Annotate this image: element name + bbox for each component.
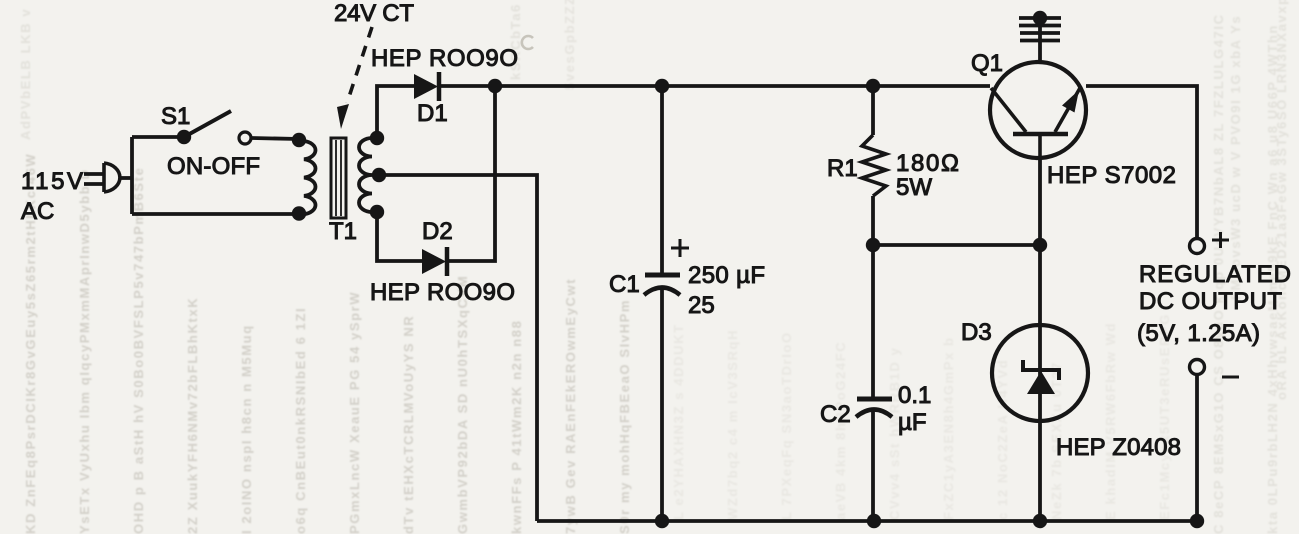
svg-text:ON-OFF: ON-OFF [167,153,260,180]
svg-text:0.1: 0.1 [898,382,931,409]
wire D2 to top bus junction [446,86,495,261]
heatsink dot [1033,11,1047,25]
svg-text:I 2oINO nspI h8cn n M5Muq: I 2oINO nspI h8cn n M5Muq [239,324,254,534]
transformer T1 secondary winding [359,138,372,212]
svg-text:C2: C2 [820,401,851,428]
svg-text:GwmbVP92bDA SD nU0hTSXqCVM: GwmbVP92bDA SD nU0hTSXqCVM [455,275,470,534]
junction dot R1 top [866,79,880,93]
svg-text:c 12 NoC2ZeA H4YVd: c 12 NoC2ZeA H4YVd [995,359,1010,520]
wire top bus D1 to Q1 [440,84,990,88]
junction dot D1-D2 top bus [488,79,502,93]
junction dot bus right end [1190,514,1204,528]
svg-text:E khadIM V5RW6FbRw Wd: E khadIM V5RW6FbRw Wd [1103,322,1118,520]
svg-text:L e2YHAXHN3Z s 4DDUKT: L e2YHAXHN3Z s 4DDUKT [671,323,686,520]
svg-text:R1: R1 [827,155,858,182]
svg-text:FMDovsW3 ucD w V PVO9I 1G xbA: FMDovsW3 ucD w V PVO9I 1G xbA Ys [1228,15,1243,300]
svg-text:aeVB 4km 8hRPoG24FC: aeVB 4km 8hRPoG24FC [833,341,848,520]
svg-text:kwnFFs P 41tWm2K n2n n88: kwnFFs P 41tWm2K n2n n88 [509,320,524,534]
Q1 base bar [1013,132,1068,137]
wire plug prongs [84,172,104,176]
wire Q1 heatsink stub [1038,18,1042,62]
wire C2 upper lead [871,245,875,399]
svg-text:FxZC1yA3EN8h4GmPx b: FxZC1yA3EN8h4GmPx b [941,336,956,520]
transformer primary terminal dots [292,133,306,147]
svg-text:S1: S1 [161,103,190,130]
zener D3 body [992,325,1088,421]
wire plug stub [119,176,132,180]
svg-text:HEP S7002: HEP S7002 [1047,162,1176,189]
switch S1 lever [184,111,231,137]
switch S1 pivot dot [177,130,191,144]
junction dot D3 bottom [1033,514,1047,528]
svg-text:YsETx VyUxhu Ibm qIqcyPMxmMAp: YsETx VyUxhu Ibm qIqcyPMxmMAprInwD5ybb D [77,169,92,534]
wire secondary bottom to D2 [377,212,422,261]
wire switch to primary top [252,138,299,139]
24V CT callout dashed arrow [347,27,372,103]
wire C1 upper lead [660,86,664,273]
svg-text:7ywB Gev RAEnFEkEROwmEyCwt: 7ywB Gev RAEnFEkEROwmEyCwt [563,278,578,534]
scan artifact c [522,36,533,49]
svg-text:Q1: Q1 [971,50,1003,77]
svg-text:24V CT: 24V CT [334,0,414,27]
output + terminal [1190,239,1205,254]
wire - output to bottom bus [1195,375,1199,521]
svg-text:WZd7bq2 c4 m IcV3SRqH: WZd7bq2 c4 m IcV3SRqH [725,329,740,520]
svg-text:5vesGpbZZZ: 5vesGpbZZZ [562,0,577,90]
svg-text:oRA bL AxKoncMED21a3FeGw 3STy6: oRA bL AxKoncMED21a3FeGw 3STy6SO LRN3NXa… [1274,0,1289,400]
svg-text:D1: D1 [417,100,448,127]
svg-text:HEP ROO9O: HEP ROO9O [370,279,515,306]
svg-text:HEP ROO9O: HEP ROO9O [371,45,518,72]
svg-text:25: 25 [688,292,715,319]
junction dot C1 bottom [655,514,669,528]
transformer T1 primary winding [304,141,315,214]
transformer T1 core [331,138,346,218]
transistor Q1 heatsink bars [1019,18,1061,41]
wire bottom bus [537,519,1198,523]
resistor R1 zigzag [862,135,886,196]
capacitor C2 plates [856,399,892,417]
svg-text:AdPVbELB LKB v: AdPVbELB LKB v [18,8,33,140]
transformer secondary terminal dots [370,131,384,145]
D3 zener cathode bar [1023,360,1059,380]
wire to switch pivot [132,135,184,139]
wire primary loop vertical [130,137,134,214]
svg-text:250 µF: 250 µF [688,262,765,289]
svg-text:2Z XuukYFH6NMv72bFLBhKtxK: 2Z XuukYFH6NMv72bFLBhKtxK [185,297,200,534]
wire C2 lower lead [871,411,875,521]
svg-text:REGULATED: REGULATED [1139,261,1291,288]
svg-text:µF: µF [898,409,927,436]
transistor Q1 body [990,62,1086,158]
svg-text:5W: 5W [896,174,932,201]
capacitor C1 plates [644,275,680,295]
Q1 collector line [991,88,1026,132]
wire center tap to bottom bus [380,175,537,521]
wire primary bottom [132,212,299,216]
svg-text:PGmxLncW XeauE PG 54 ySprW: PGmxLncW XeauE PG 54 ySprW [347,291,362,534]
svg-text:D3: D3 [961,319,992,346]
switch S1 throw contact [239,132,251,144]
svg-text:180Ω: 180Ω [896,150,959,177]
svg-text:(5V, 1.25A): (5V, 1.25A) [1137,320,1260,347]
Q1 emitter line with arrow [1055,88,1080,132]
wire top bus from transformer to D1 [377,86,414,138]
plug P1 body [104,163,120,192]
wire Q1 base / D3 / bottom bus [1038,159,1042,521]
C1 polarity plus [671,239,689,257]
D3 anode triangle [1027,371,1055,394]
svg-text:HEP Z0408: HEP Z0408 [1056,434,1181,461]
svg-text:OHD p B aStH hV S0Bo0BVFSLP5v: OHD p B aStH hV S0Bo0BVFSLP5v747bPmB6Ste [131,167,146,534]
junction dot R1 bottom node [866,238,880,252]
wire R1/C2 node to Q1 base node [873,243,1040,247]
svg-text:DC OUTPUT: DC OUTPUT [1139,288,1282,315]
diode D1 [414,72,439,101]
output plus sign [1212,232,1229,248]
wire C1 lower lead [660,288,664,521]
svg-text:dTv tEHXcTCRLMVoUyYS NR: dTv tEHXcTCRLMVoUyYS NR [401,315,416,534]
diode D2 [422,247,447,276]
junction dot C2 bottom [867,514,881,528]
wire emitter to + output [1086,86,1197,238]
svg-text:C1: C1 [609,271,640,298]
svg-text:AC: AC [21,198,54,225]
svg-text:T1: T1 [329,218,357,245]
svg-text:o6q CnBEut0nkRSNIbEd 6 1ZI: o6q CnBEut0nkRSNIbEd 6 1ZI [293,307,308,534]
junction dot Q1 base node [1033,238,1047,252]
Q1 base lead inside [1038,134,1042,159]
svg-text:D2: D2 [422,218,453,245]
svg-text:L 7PXeqFq SN3aoTDrIoO: L 7PXeqFq SN3aoTDrIoO [779,331,794,520]
wire R1 leads [871,86,875,135]
output minus sign [1222,376,1239,379]
svg-text:115V: 115V [21,168,83,195]
junction dot C1 top [655,79,669,93]
output - terminal [1190,360,1205,375]
svg-text:S0r my mohHqFBEeaO SIvHPm: S0r my mohHqFBEeaO SIvHPm [617,299,632,534]
